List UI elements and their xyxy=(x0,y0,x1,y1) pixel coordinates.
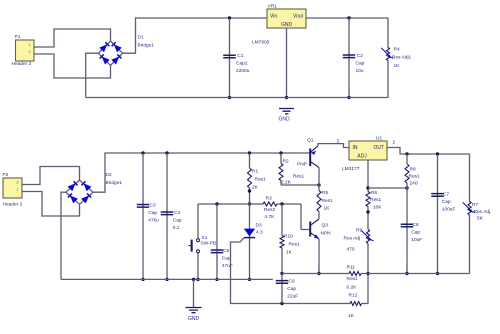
resistor R5 1K xyxy=(317,185,333,219)
junction C3 bottom xyxy=(141,278,144,281)
resistor R10 1K xyxy=(280,204,300,274)
svg-text:Cap: Cap xyxy=(148,210,157,216)
svg-text:OUT: OUT xyxy=(373,145,384,151)
svg-text:NPN: NPN xyxy=(321,231,332,237)
svg-text:5K: 5K xyxy=(477,215,484,221)
resistor R1 2K xyxy=(248,153,267,204)
pushbutton switch S1 SW-PB xyxy=(188,204,216,279)
capacitor C7 branch xyxy=(437,154,439,274)
resistor R6 10K xyxy=(366,190,382,211)
svg-text:Res Adj1: Res Adj1 xyxy=(392,55,412,61)
wire U1 OUT to output rail xyxy=(387,148,470,155)
svg-text:470: 470 xyxy=(347,247,355,253)
ground GND (top circuit) xyxy=(278,109,294,123)
svg-text:1K: 1K xyxy=(394,63,401,69)
svg-text:Res1: Res1 xyxy=(322,198,334,204)
junction Q3 emitter at node line xyxy=(317,272,320,275)
svg-text:PNP: PNP xyxy=(297,162,307,168)
wire P1 pin1 to bridge top xyxy=(34,29,111,47)
svg-text:C6: C6 xyxy=(289,278,295,284)
wire capacitor C2 branch xyxy=(348,18,350,98)
svg-text:0.1: 0.1 xyxy=(173,225,180,231)
svg-text:1K: 1K xyxy=(324,206,331,212)
svg-text:GND: GND xyxy=(281,22,293,28)
potentiometer R7 (Res Adj) 5K xyxy=(463,154,492,274)
svg-text:2: 2 xyxy=(17,180,19,184)
wire return node line (y273) xyxy=(282,273,470,275)
svg-text:Bridge1: Bridge1 xyxy=(138,43,155,49)
svg-text:R1: R1 xyxy=(252,169,258,175)
svg-text:GND: GND xyxy=(278,117,290,123)
svg-text:Q3: Q3 xyxy=(322,223,329,229)
capacitor C3 xyxy=(137,202,160,223)
wire capacitor C1 branch xyxy=(229,18,231,98)
svg-text:Res2: Res2 xyxy=(264,207,276,213)
pin number 3 (U1 IN) xyxy=(337,139,340,144)
svg-text:R8: R8 xyxy=(410,167,416,173)
junction R1 pin bottom xyxy=(248,189,251,192)
resistor R2 2.2K xyxy=(279,153,305,186)
svg-text:0.2K: 0.2K xyxy=(347,285,358,291)
svg-text:C2: C2 xyxy=(357,53,363,59)
wire top ground rail xyxy=(86,97,388,99)
svg-text:10u: 10u xyxy=(356,68,364,74)
resistor R11 0.2K xyxy=(347,265,362,291)
svg-text:R4: R4 xyxy=(394,47,400,53)
bridge rectifier D2 xyxy=(66,172,122,204)
junction R8 top xyxy=(405,152,408,155)
wire bridge left vertex to ground rail xyxy=(86,53,99,97)
svg-text:47uF: 47uF xyxy=(222,263,233,269)
junction R1 top xyxy=(248,151,251,154)
capacitor C2 xyxy=(343,53,365,74)
wire zener tail to lower return line xyxy=(231,238,369,304)
capacitor C5 branch wire xyxy=(216,204,218,279)
transistor Q1 PNP xyxy=(297,138,319,168)
junction C4 top xyxy=(165,151,168,154)
junction C1 bottom xyxy=(228,96,231,99)
svg-text:IN: IN xyxy=(353,145,358,151)
svg-text:R3: R3 xyxy=(266,196,272,202)
svg-text:Res1: Res1 xyxy=(293,174,305,180)
resistor R12 1K xyxy=(348,293,362,320)
junction gnd stem xyxy=(192,278,195,281)
svg-text:22uF: 22uF xyxy=(287,294,298,300)
svg-text:R7: R7 xyxy=(472,202,478,208)
wire bridge right vertex to VR1 Vin xyxy=(123,18,268,53)
svg-text:Q1: Q1 xyxy=(307,138,314,144)
svg-text:1: 1 xyxy=(29,43,31,47)
svg-text:Vin: Vin xyxy=(270,14,277,20)
junction C7 top xyxy=(436,152,439,155)
connector P1 (Header 2) xyxy=(12,34,35,67)
svg-text:GND: GND xyxy=(188,316,200,322)
svg-text:R9: R9 xyxy=(356,228,362,234)
wire bridge D2 left vertex to ground rail xyxy=(61,192,66,279)
junction R10 bottom / node line left end xyxy=(280,272,283,275)
wire R2 bottom to Q1 collector node xyxy=(281,184,319,186)
svg-text:Bridge1: Bridge1 xyxy=(106,180,123,186)
svg-text:Vout: Vout xyxy=(293,14,304,20)
regulator U1 LM317T xyxy=(342,136,387,173)
junction node A (R1/R3/D3) xyxy=(248,202,251,205)
junction C5 bottom xyxy=(215,278,218,281)
junction C4 bottom xyxy=(165,278,168,281)
svg-text:R10: R10 xyxy=(284,234,293,240)
svg-text:C7: C7 xyxy=(443,191,449,197)
resistor R3 4.7K xyxy=(263,196,277,221)
wire capacitor C3 branch xyxy=(142,153,144,279)
svg-text:10uF: 10uF xyxy=(411,237,422,243)
svg-text:R2: R2 xyxy=(283,159,289,165)
junction ADJ/R8 branch right xyxy=(405,186,408,189)
junction R9 bottom at node line xyxy=(366,272,369,275)
resistor R8 240 xyxy=(405,154,420,274)
capacitor C5 xyxy=(211,248,233,269)
junction R2 top xyxy=(279,151,282,154)
regulator VR1 LM7805 xyxy=(252,4,306,46)
svg-text:U1: U1 xyxy=(376,136,382,142)
svg-text:Res1: Res1 xyxy=(347,276,359,282)
junction R6 pin bottom xyxy=(366,210,369,213)
junction C1 top xyxy=(228,16,231,19)
svg-text:10K: 10K xyxy=(373,205,382,211)
svg-text:Cap2: Cap2 xyxy=(236,61,248,67)
svg-text:D2: D2 xyxy=(106,172,112,178)
wire P2 pin1 to bridge top xyxy=(22,167,80,185)
svg-text:D3: D3 xyxy=(256,223,262,229)
wire bottom ground rail xyxy=(61,278,273,280)
svg-text:1K: 1K xyxy=(348,313,355,319)
zener diode D3 wire xyxy=(249,204,251,279)
svg-text:Header 2: Header 2 xyxy=(12,61,32,67)
svg-text:P1: P1 xyxy=(15,34,21,40)
svg-text:4.7K: 4.7K xyxy=(265,214,276,220)
svg-text:240: 240 xyxy=(410,181,418,187)
svg-text:2K: 2K xyxy=(252,185,259,191)
wire U1 ADJ stem xyxy=(367,160,369,274)
junction C8 bottom at node line xyxy=(405,272,408,275)
svg-text:Cap: Cap xyxy=(442,199,451,205)
junction Q1 collector node xyxy=(317,183,320,186)
ground GND (bottom circuit) xyxy=(186,279,202,322)
svg-text:VR1: VR1 xyxy=(268,4,278,10)
svg-text:R11: R11 xyxy=(347,265,356,271)
wire Q1 emitter to U1 IN xyxy=(318,144,349,148)
capacitor C7 xyxy=(431,191,455,212)
pin number 2 (U1 OUT) xyxy=(393,140,396,145)
svg-text:1: 1 xyxy=(17,187,19,191)
svg-text:S1: S1 xyxy=(202,235,208,241)
wire Q3 emitter down xyxy=(318,239,320,274)
svg-text:Cap: Cap xyxy=(411,230,420,236)
wire ADJ to R8 bottom xyxy=(368,187,407,189)
capacitor C1 xyxy=(223,53,249,74)
svg-text:LM317T: LM317T xyxy=(342,166,360,172)
svg-text:R12: R12 xyxy=(349,293,358,299)
svg-text:P2: P2 xyxy=(3,172,9,178)
svg-text:100uF: 100uF xyxy=(442,207,456,213)
svg-text:Cap: Cap xyxy=(287,286,296,292)
capacitor C6 link xyxy=(281,274,283,304)
junction D3 bottom at rail xyxy=(248,278,251,281)
potentiometer R4 (Res Adj) xyxy=(381,18,411,98)
capacitor C4 xyxy=(161,210,182,231)
junction VR1 gnd at rail xyxy=(285,96,288,99)
junction ADJ/R8 branch left xyxy=(366,186,369,189)
svg-text:R5: R5 xyxy=(322,190,328,196)
capacitor C6 xyxy=(276,278,299,299)
svg-text:D1: D1 xyxy=(138,35,144,41)
wire capacitor C4 branch xyxy=(166,153,168,279)
wire P1 pin2 to bridge bottom xyxy=(34,54,111,78)
wire P2 pin2 to bridge bottom xyxy=(22,192,80,217)
svg-text:C8: C8 xyxy=(413,222,419,228)
junction C5 top xyxy=(215,202,218,205)
svg-text:2: 2 xyxy=(393,140,396,145)
wire Q1 collector down xyxy=(318,168,320,186)
svg-text:Cap: Cap xyxy=(173,217,182,223)
svg-text:2: 2 xyxy=(29,50,31,54)
wire Q3 base xyxy=(301,204,310,230)
svg-text:C4: C4 xyxy=(174,210,180,216)
svg-text:Cap: Cap xyxy=(356,60,365,66)
junction C2 top xyxy=(347,16,350,19)
wire node A line (y204) xyxy=(198,203,301,205)
svg-text:Header 2: Header 2 xyxy=(3,202,23,208)
junction C2 bottom xyxy=(347,96,350,99)
junction S1 bottom xyxy=(196,278,199,281)
bridge rectifier D1 xyxy=(99,35,155,66)
wire VR1 GND pin to rail xyxy=(286,28,288,98)
transistor Q3 NPN xyxy=(310,219,331,239)
capacitor C8 xyxy=(401,222,423,243)
svg-text:C5: C5 xyxy=(223,248,229,254)
svg-text:LM7805: LM7805 xyxy=(252,40,270,46)
svg-text:2200u: 2200u xyxy=(236,68,250,74)
wire VR1 Vout rail xyxy=(306,17,388,19)
svg-text:Res Adj.: Res Adj. xyxy=(474,209,492,215)
junction C6 bottom xyxy=(280,302,283,305)
svg-text:C1: C1 xyxy=(237,53,243,59)
potentiometer R9 (Res Adj) 470 xyxy=(344,228,374,253)
junction R10 top xyxy=(280,202,283,205)
svg-text:C3: C3 xyxy=(150,202,156,208)
junction C7 bottom at node line xyxy=(436,272,439,275)
svg-text:R6: R6 xyxy=(371,190,377,196)
svg-text:Res1: Res1 xyxy=(255,177,267,183)
svg-text:ADJ: ADJ xyxy=(357,154,367,160)
svg-text:Res Adj: Res Adj xyxy=(344,236,361,242)
svg-text:Res1: Res1 xyxy=(289,242,301,248)
connector P2 (Header 2) xyxy=(3,172,23,208)
svg-text:Cap: Cap xyxy=(222,255,231,261)
svg-text:SW-PB: SW-PB xyxy=(201,240,217,246)
svg-text:3: 3 xyxy=(337,139,340,144)
svg-text:1K: 1K xyxy=(286,250,293,256)
junction C3 top xyxy=(141,151,144,154)
wire bridge D2 right vertex to top rail xyxy=(93,153,310,192)
svg-text:470u: 470u xyxy=(148,218,159,224)
svg-text:Res1: Res1 xyxy=(409,174,421,180)
svg-text:4.3: 4.3 xyxy=(256,230,263,236)
svg-text:Res1: Res1 xyxy=(370,197,382,203)
zener diode D3 xyxy=(244,223,263,238)
